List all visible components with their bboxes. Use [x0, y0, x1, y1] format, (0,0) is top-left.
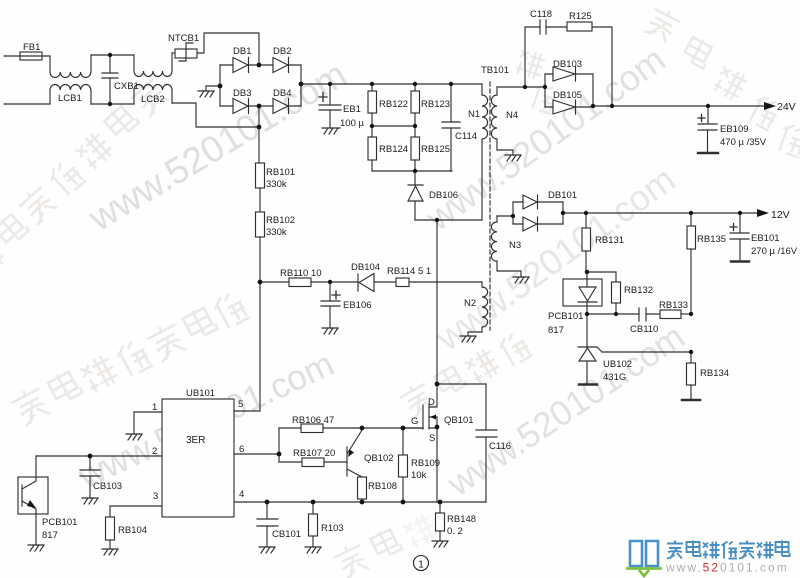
node C118: [523, 85, 527, 89]
node DB105 out: [591, 104, 595, 108]
fuse FB1: [20, 52, 42, 60]
logo book icon: [630, 541, 658, 566]
node EB101: [738, 211, 742, 215]
svg-text:TB101: TB101: [481, 65, 509, 76]
wire 24V output line: [593, 105, 764, 107]
wire AC input bottom: [4, 103, 50, 105]
wire N3 to DB101: [497, 215, 513, 217]
node RB109 top: [401, 426, 406, 431]
ground chassis at PCB101: [28, 545, 44, 551]
svg-text:330k: 330k: [266, 227, 287, 238]
resistor RB132: [612, 282, 621, 314]
svg-text:2: 2: [152, 446, 157, 457]
wire LCB2 to NTCB1: [172, 52, 175, 54]
resistor RB101 330k: [256, 163, 265, 188]
transformer TB101 winding N3: [491, 216, 521, 277]
wire DB103/DB105 anode vertical: [544, 74, 546, 107]
wire C118 riser: [525, 27, 540, 87]
ground chassis at bridge: [198, 91, 214, 97]
ground chassis at EB1: [322, 128, 340, 134]
wire vcc line to RB110: [260, 281, 289, 283]
wire gate line: [403, 427, 423, 429]
capacitor EB1: [319, 84, 341, 128]
ground chassis at EB106: [322, 328, 338, 334]
wire RB101 to RB102: [259, 188, 261, 212]
svg-text:470 µ /35V: 470 µ /35V: [720, 137, 767, 148]
transistor QB102: [347, 430, 362, 477]
arrow emitter PCB101: [27, 500, 36, 508]
svg-text:EB1: EB1: [343, 104, 361, 115]
svg-text:RB108: RB108: [368, 481, 397, 492]
node N3 DB101: [511, 214, 515, 218]
wire bridge bottom row: [220, 105, 301, 107]
arrow 12V: [757, 209, 769, 217]
symbol circled 1: [414, 556, 429, 571]
svg-text:270 µ /16V: 270 µ /16V: [751, 246, 798, 257]
ground chassis at N4: [505, 155, 521, 161]
diode DB2: [273, 58, 289, 73]
node RB123: [413, 82, 417, 86]
diode DB1: [233, 58, 249, 73]
polarity plus EB106: [332, 291, 340, 299]
svg-text:0. 2: 0. 2: [447, 526, 463, 537]
wire B+ rail: [301, 83, 482, 85]
svg-text:RB131: RB131: [595, 235, 624, 246]
svg-text:EB101: EB101: [751, 233, 780, 244]
node RB133 right: [689, 312, 693, 316]
wire bridge to chassis ground: [206, 86, 220, 91]
node RB132 bottom: [614, 312, 618, 316]
svg-text:LCB2: LCB2: [141, 94, 165, 105]
inductor LCB2 bottom winding: [134, 85, 172, 105]
mosfet QB101 source and arrow stubs: [429, 417, 437, 502]
svg-text:DB101: DB101: [548, 190, 577, 201]
node R125 return: [610, 104, 614, 108]
svg-text:RB123: RB123: [421, 99, 450, 110]
node RB122: [370, 82, 374, 86]
svg-text:5: 5: [238, 399, 243, 410]
svg-text:RB133: RB133: [659, 300, 688, 311]
mosfet QB101 drain lead: [429, 384, 437, 407]
svg-text:DB2: DB2: [273, 46, 291, 57]
watermark layer: [72, 38, 692, 504]
svg-text:CXB1: CXB1: [114, 81, 139, 92]
wire feedback node to RB132: [587, 272, 616, 282]
ground chassis at N3: [513, 277, 529, 283]
svg-text:UB101: UB101: [186, 388, 215, 399]
node divider right: [413, 124, 417, 128]
node C114: [449, 82, 453, 86]
svg-text:D: D: [428, 397, 435, 408]
logo book underline: [626, 569, 662, 577]
diode DB101 lower: [513, 217, 563, 231]
svg-text:N3: N3: [509, 240, 521, 251]
svg-text:R125: R125: [569, 11, 592, 22]
arrow mosfet QB101: [430, 415, 436, 420]
wire bridge bottom to RB101: [258, 106, 260, 163]
node drain junction: [435, 218, 439, 222]
node source: [435, 425, 440, 430]
capacitor EB101: [730, 213, 749, 261]
ground chassis at pin1: [126, 434, 142, 440]
thermistor NTCB1: [175, 43, 197, 61]
ground bar UB102: [579, 383, 597, 385]
svg-text:N4: N4: [506, 110, 518, 121]
wire bridge left vertical: [219, 65, 221, 106]
svg-text:RB148: RB148: [447, 514, 476, 525]
svg-text:817: 817: [42, 530, 58, 541]
svg-text:C118: C118: [530, 9, 552, 20]
svg-text:N2: N2: [464, 298, 476, 309]
svg-text:FB1: FB1: [23, 42, 40, 53]
svg-text:DB4: DB4: [273, 88, 291, 99]
inductor LCB2 top winding: [134, 53, 172, 77]
node DB103 anode: [543, 85, 547, 89]
node bridge left: [218, 84, 223, 89]
resistor RB123: [411, 91, 420, 113]
svg-text:EB106: EB106: [343, 300, 372, 311]
node DB101 out: [561, 211, 565, 215]
resistor RB125: [411, 126, 420, 160]
wire bridge top row: [220, 64, 301, 66]
resistor RB131: [582, 213, 591, 272]
wire pin3 to RB104: [110, 506, 162, 517]
svg-text:QB102: QB102: [364, 453, 394, 464]
resistor RB109 10k: [399, 428, 408, 502]
wire drain riser: [436, 220, 438, 384]
transformer TB101 primary N1: [482, 84, 488, 220]
capacitor CB101: [257, 502, 278, 547]
wire snubber bottom line: [372, 160, 452, 171]
wire emitter to ground: [35, 514, 37, 545]
node RB148 top: [438, 500, 443, 505]
svg-text:PCB101: PCB101: [42, 517, 77, 528]
svg-text:RB135: RB135: [697, 234, 726, 245]
wire pin5 riser to vcc: [234, 282, 260, 411]
wire pin6 to drive node: [234, 453, 279, 455]
svg-text:DB105: DB105: [553, 90, 582, 101]
svg-text:RB104: RB104: [118, 525, 147, 536]
wire mid divider line: [372, 113, 415, 126]
node RB131 top: [584, 211, 588, 215]
node RB109 bottom: [401, 500, 406, 505]
logo title glyphs: [667, 541, 790, 559]
svg-text:817: 817: [548, 325, 564, 336]
wire LCB1 to CXB1: [91, 55, 110, 104]
wire DB106 to N1 return: [415, 219, 482, 221]
resistor RB135: [687, 213, 696, 314]
node divider left: [370, 124, 374, 128]
phototransistor PCB101: [22, 456, 36, 514]
node R103: [311, 500, 316, 505]
ground chassis at R103: [305, 547, 321, 553]
node drain top: [435, 382, 440, 387]
node drive: [277, 452, 282, 457]
optocoupler PCB101 transistor box: [18, 477, 48, 514]
svg-text:R103: R103: [321, 523, 344, 534]
wire AC input top: [4, 55, 50, 57]
resistor R103: [309, 502, 318, 547]
svg-text:1: 1: [152, 402, 157, 413]
svg-text:RB110 10: RB110 10: [280, 268, 322, 279]
transformer TB101 winding N2: [468, 282, 488, 336]
node snubber bottom: [413, 169, 417, 173]
node dots: [88, 53, 743, 505]
node RB135 top: [689, 211, 693, 215]
svg-text:N1: N1: [468, 109, 480, 120]
capacitor C118: [540, 20, 567, 34]
svg-text:4: 4: [239, 489, 244, 500]
wire N4 to rectifier junction: [497, 86, 545, 88]
capacitor EB106: [321, 282, 340, 328]
resistor RB104: [106, 517, 115, 549]
svg-text:3ER: 3ER: [186, 435, 205, 446]
ground chassis at RB148: [432, 541, 448, 547]
wire fb mid line: [587, 313, 639, 315]
polarity plus EB101: [730, 224, 737, 231]
node CB101: [265, 500, 270, 505]
resistor RB110 10: [289, 278, 358, 287]
wire pin1 to ground: [134, 412, 162, 434]
ground bar RB134: [682, 399, 700, 401]
ground chassis at RB104: [102, 549, 118, 555]
ic UB101 3ER box: [162, 399, 234, 517]
svg-text:12V: 12V: [771, 209, 790, 221]
capacitor EB109: [698, 106, 717, 152]
optocoupler PCB101 led box: [563, 279, 602, 306]
svg-text:DB103: DB103: [553, 59, 582, 70]
resistor RB102 330k: [256, 212, 265, 237]
svg-text:10k: 10k: [411, 470, 427, 481]
svg-text:330k: 330k: [266, 179, 287, 190]
ground chassis at N2: [460, 336, 476, 342]
svg-text:CB101: CB101: [272, 529, 301, 540]
capacitor C116: [476, 384, 497, 502]
node CXB1 top: [108, 53, 112, 57]
mosfet QB101 gate bar: [422, 405, 424, 429]
svg-text:LCB1: LCB1: [58, 93, 82, 104]
svg-text:CB103: CB103: [93, 481, 122, 492]
resistor RB108: [358, 477, 367, 502]
resistor RB122: [368, 91, 377, 113]
svg-text:24V: 24V: [777, 101, 796, 113]
resistor RB134: [687, 352, 696, 399]
wire DB101 cathode vertical: [562, 202, 564, 224]
svg-text:NTCB1: NTCB1: [168, 33, 199, 44]
svg-text:RB106 47: RB106 47: [292, 415, 334, 426]
wire RB102 to vcc node: [259, 237, 261, 282]
svg-text:UB102: UB102: [603, 359, 632, 370]
diode DB3: [233, 99, 249, 114]
svg-text:www.520101.com: www.520101.com: [665, 561, 789, 575]
svg-text:S: S: [429, 433, 435, 444]
svg-text:6: 6: [239, 444, 244, 455]
wire drive node branch: [278, 428, 280, 462]
svg-text:RB109: RB109: [411, 458, 440, 469]
wire NTCB1 to bridge top node: [197, 33, 259, 65]
wire source sense line: [234, 501, 486, 503]
svg-text:RB122: RB122: [379, 99, 408, 110]
svg-text:DB106: DB106: [429, 190, 458, 201]
diode DB101 upper: [513, 195, 563, 209]
resistor R125: [567, 22, 612, 106]
svg-text:RB114 5 1: RB114 5 1: [387, 266, 431, 277]
svg-text:EB109: EB109: [720, 124, 749, 135]
svg-text:RB132: RB132: [624, 285, 653, 296]
resistor RB124: [368, 126, 377, 160]
node CB103: [88, 454, 93, 459]
svg-text:431G: 431G: [603, 372, 626, 383]
arrow 24V: [764, 102, 776, 110]
inductor LCB1 bottom winding: [50, 85, 91, 105]
svg-text:C116: C116: [489, 441, 511, 452]
node fb top: [585, 270, 589, 274]
svg-text:RB124: RB124: [379, 144, 408, 155]
resistor RB106 47: [279, 424, 423, 433]
capacitor CXB1: [102, 55, 118, 104]
node EB1: [328, 82, 332, 86]
node ref divider: [689, 350, 693, 354]
capacitor CB110: [639, 308, 660, 321]
polarity plus EB109: [698, 115, 705, 122]
wire CXB1 to LCB2: [110, 55, 134, 104]
resistor RB148 0.2: [436, 502, 445, 541]
diode DB105: [545, 100, 593, 114]
resistor RB133: [660, 310, 691, 319]
svg-text:G: G: [411, 416, 418, 427]
svg-text:RB102: RB102: [266, 215, 295, 226]
wire drain to C116: [437, 383, 486, 385]
wire 12V output line: [563, 212, 757, 214]
transformer TB101 winding N4: [491, 87, 513, 155]
svg-text:DB1: DB1: [233, 46, 251, 57]
capacitor CB103: [80, 456, 100, 498]
svg-text:RB101: RB101: [266, 167, 295, 178]
svg-text:RB107 20: RB107 20: [293, 448, 335, 459]
node bridge AC1: [257, 63, 262, 68]
svg-text:DB104: DB104: [351, 262, 380, 273]
svg-text:QB101: QB101: [444, 415, 474, 426]
svg-text:RB125: RB125: [421, 144, 450, 155]
wire RB123 riser: [414, 84, 416, 91]
logo bottom right: [626, 541, 790, 577]
wire DB101 anode vertical: [512, 202, 514, 224]
node EB106: [328, 280, 332, 284]
arrow emitter QB102: [348, 450, 354, 458]
polarity plus EB1: [319, 93, 327, 102]
transformer TB101 core: [489, 82, 491, 330]
svg-text:DB3: DB3: [233, 88, 251, 99]
led PCB101 diode: [578, 272, 597, 314]
svg-text:3: 3: [153, 491, 158, 502]
node led cathode: [585, 312, 589, 316]
svg-text:CB110: CB110: [630, 324, 658, 335]
resistor RB114 5.1: [396, 278, 482, 287]
svg-text:100 µ: 100 µ: [340, 118, 364, 129]
node CXB1 bottom: [108, 102, 112, 106]
node bridge B+: [299, 82, 304, 87]
wire RB122 riser: [371, 84, 373, 91]
capacitor C114: [442, 84, 460, 171]
ground bar EB101: [731, 260, 749, 262]
node vcc left: [258, 280, 263, 285]
shunt reg UB102 431G: [578, 314, 602, 384]
diode DB103: [545, 67, 593, 107]
diode DB4: [273, 99, 289, 114]
wire bridge right vertical: [300, 65, 302, 106]
node bridge AC2: [257, 104, 262, 109]
svg-text:RB134: RB134: [700, 368, 729, 379]
node emitter gate: [360, 426, 365, 431]
resistor RB107 20: [279, 458, 347, 467]
diode DB104: [358, 274, 396, 292]
wire pin2 to opto: [36, 455, 162, 457]
svg-text:C114: C114: [455, 131, 477, 142]
svg-text:PCB101: PCB101: [548, 311, 583, 322]
mosfet QB101 channel bar: [428, 405, 430, 429]
node AC2 join: [257, 125, 262, 130]
ground bar EB109: [698, 152, 718, 154]
wire UB102 ref to divider: [602, 351, 691, 353]
svg-text:1: 1: [418, 560, 424, 571]
node EB109: [706, 104, 710, 108]
ground chassis at CB103: [82, 498, 98, 504]
node RB108 bottom: [360, 500, 365, 505]
wire LCB2 to bridge bottom node: [172, 103, 259, 127]
diode DB106: [408, 171, 423, 220]
ground chassis at CB101: [259, 547, 275, 553]
inductor LCB1 top winding: [50, 55, 91, 78]
